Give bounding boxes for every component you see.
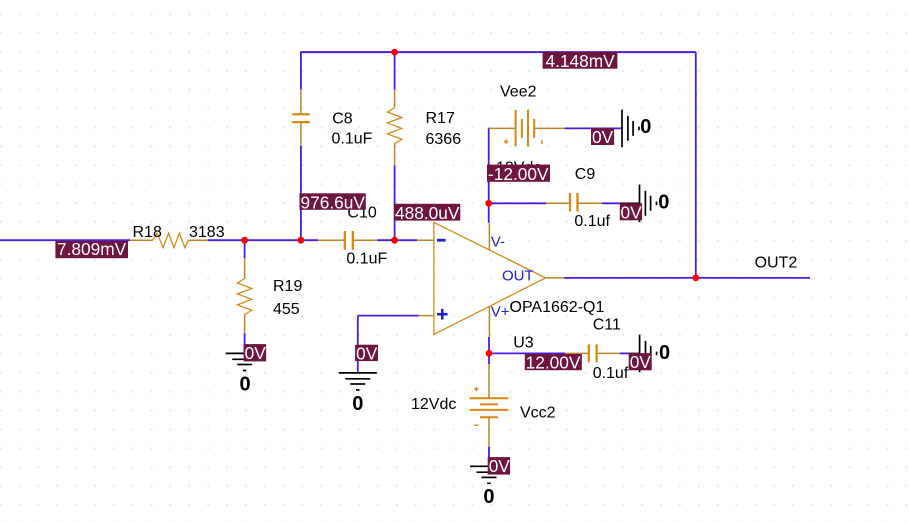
- label C8: [332, 111, 353, 128]
- bias label 0V (C11 ground): [629, 352, 652, 372]
- svg-text:C11: C11: [593, 317, 621, 334]
- junction V+ net: [486, 350, 493, 357]
- svg-text:Vee2: Vee2: [500, 84, 537, 101]
- wire output to OUT2: [696, 277, 810, 279]
- wire top feedback right: [395, 51, 696, 53]
- wire plus ground vertical: [357, 316, 359, 373]
- capacitor C9: [546, 193, 602, 212]
- svg-text:0.1uF: 0.1uF: [332, 131, 373, 148]
- svg-text:3183: 3183: [189, 224, 225, 241]
- svg-text:0: 0: [240, 373, 251, 395]
- svg-text:0.1uf: 0.1uf: [593, 365, 629, 382]
- value 455: [273, 301, 300, 318]
- svg-text:0V: 0V: [592, 127, 614, 147]
- svg-text:488.0uV: 488.0uV: [395, 203, 460, 223]
- capacitor C11: [565, 344, 620, 362]
- label R17: [426, 110, 455, 127]
- svg-text:12Vdc: 12Vdc: [411, 396, 456, 413]
- pin name V-: [491, 233, 505, 250]
- wire C8 branch vertical lower: [300, 146, 302, 240]
- wire C8 vertical upper: [300, 52, 302, 89]
- ground 0 (plus input): [339, 373, 377, 415]
- svg-text:0: 0: [640, 116, 651, 138]
- svg-text:R17: R17: [426, 110, 455, 127]
- value 12Vdc (Vee2): [496, 159, 541, 176]
- value 0.1uf (C11): [593, 365, 629, 382]
- wire opamp plus to corner: [358, 315, 419, 317]
- battery Vee2: [489, 110, 565, 147]
- label Vee2: [500, 84, 537, 101]
- svg-text:Vcc2: Vcc2: [520, 405, 556, 422]
- ground 0 (C11): [629, 335, 671, 373]
- svg-text:0V: 0V: [356, 344, 378, 364]
- svg-text:0.1uf: 0.1uf: [574, 213, 610, 230]
- wire junction to opamp minus pin: [395, 239, 417, 241]
- junction R18/R19: [241, 237, 248, 244]
- bias label 0V (Vee2 ground): [591, 127, 614, 147]
- svg-text:0: 0: [483, 486, 494, 508]
- wire opamp output: [564, 277, 696, 279]
- svg-text:-12.00V: -12.00V: [488, 164, 549, 184]
- svg-text:12.00V: 12.00V: [526, 353, 581, 373]
- label R19: [273, 278, 302, 295]
- pin name V+: [491, 304, 510, 321]
- svg-text:0: 0: [658, 192, 669, 214]
- value 3183: [189, 224, 225, 241]
- capacitor C8: [292, 89, 310, 146]
- svg-text:OUT2: OUT2: [755, 255, 798, 272]
- value 12Vdc (Vcc2): [411, 396, 456, 413]
- pin name OUT: [502, 267, 534, 284]
- battery Vcc2: [470, 364, 509, 447]
- wire V+ pin to junction: [488, 337, 490, 354]
- label C11: [593, 317, 621, 334]
- wire C10 to junction: [377, 239, 394, 241]
- ground 0 (Vee2): [622, 110, 651, 148]
- label C10: [347, 205, 376, 222]
- wire feedback right vertical: [695, 52, 697, 278]
- bias label 0V (R19 ground): [244, 343, 267, 363]
- bias label 0V (C9 ground): [620, 202, 642, 222]
- bias label 12.00V: [525, 353, 582, 373]
- svg-text:OUT: OUT: [502, 267, 534, 284]
- bias label 976.6uV: [300, 192, 366, 212]
- label C9: [575, 166, 596, 183]
- bias label 0V (plus-input ground): [355, 344, 378, 364]
- junction R17 branch: [391, 237, 398, 244]
- svg-text:0: 0: [659, 342, 670, 364]
- wire Vee2 to ground: [565, 127, 622, 129]
- wire R18 to junction: [208, 239, 245, 241]
- junction top feedback: [391, 49, 398, 56]
- capacitor C10: [318, 231, 377, 250]
- value 0.1uF (C10): [346, 251, 387, 268]
- svg-text:U3: U3: [513, 335, 534, 352]
- ground 0 (C9): [620, 185, 669, 223]
- svg-text:C8: C8: [332, 111, 353, 128]
- label OPA1662-Q1: [510, 299, 605, 316]
- junction C8 branch: [298, 237, 305, 244]
- bias label 488.0uV: [394, 203, 460, 223]
- wire V- pin to junction: [488, 203, 490, 222]
- net name OUT2: [755, 255, 798, 272]
- wire junction to Vcc2: [488, 353, 490, 364]
- wire Vee2 vertical: [488, 128, 490, 204]
- svg-text:976.6uV: 976.6uV: [301, 192, 366, 212]
- bias label 0V (Vcc2 ground): [488, 456, 511, 476]
- resistor R18: [130, 233, 208, 247]
- wire R19 branch stub: [244, 240, 246, 258]
- svg-text:0V: 0V: [245, 343, 267, 363]
- svg-text:0V: 0V: [489, 456, 511, 476]
- ground 0 (Vcc2): [470, 466, 508, 508]
- wire C11 to ground: [620, 352, 629, 354]
- svg-text:V+: V+: [491, 304, 510, 321]
- resistor R17: [387, 90, 401, 166]
- bias label 4.148mV: [543, 51, 618, 71]
- wire junction to C9: [489, 202, 546, 204]
- bias label 7.809mV: [55, 239, 128, 259]
- svg-text:C9: C9: [575, 166, 596, 183]
- value 0.1uF (C8): [332, 131, 373, 148]
- resistor R19: [237, 258, 251, 333]
- value 0.1uf (C9): [574, 213, 610, 230]
- svg-text:0: 0: [352, 393, 363, 415]
- wire R19 to ground: [244, 333, 246, 353]
- junction V- net: [485, 200, 492, 207]
- svg-text:OPA1662-Q1: OPA1662-Q1: [510, 299, 605, 316]
- svg-text:V-: V-: [491, 233, 505, 250]
- svg-text:R18: R18: [133, 224, 162, 241]
- label R18: [133, 224, 162, 241]
- wire junction to C11: [489, 352, 565, 354]
- wire R17 branch vertical lower: [394, 166, 396, 241]
- wire junction to C10: [245, 239, 318, 241]
- svg-text:0V: 0V: [621, 202, 643, 222]
- svg-text:455: 455: [273, 301, 300, 318]
- value 6366: [426, 131, 462, 148]
- label Vcc2: [520, 405, 556, 422]
- svg-text:0V: 0V: [630, 352, 652, 372]
- svg-text:4.148mV: 4.148mV: [546, 51, 616, 71]
- svg-text:6366: 6366: [426, 131, 462, 148]
- wire input net left: [0, 239, 130, 241]
- bias label -12.00V: [487, 164, 550, 184]
- ground 0 (R19): [226, 353, 264, 395]
- label U3: [513, 335, 534, 352]
- svg-text:7.809mV: 7.809mV: [57, 239, 127, 259]
- junction output net: [692, 275, 699, 282]
- wire C9 to ground: [602, 202, 620, 204]
- wire top feedback left: [300, 51, 395, 53]
- svg-text:0.1uF: 0.1uF: [346, 251, 387, 268]
- wire R17 branch vertical upper: [394, 52, 396, 89]
- wire Vcc2 to ground: [488, 447, 490, 467]
- svg-text:R19: R19: [273, 278, 302, 295]
- op-amp U3 OPA1662-Q1: [417, 223, 564, 337]
